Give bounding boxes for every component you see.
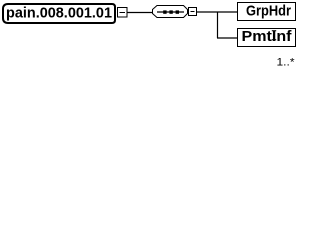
minus dash xyxy=(191,11,195,13)
wire root to sequence xyxy=(127,12,154,14)
svg-text:GrpHdr: GrpHdr xyxy=(246,3,291,20)
sequence dot 3 xyxy=(176,10,179,13)
serifs for capital I of PmtInf xyxy=(272,30,276,31)
expand box (minus) on sequence xyxy=(189,8,197,16)
wire vertical branch xyxy=(217,12,219,38)
sequence dot 2 xyxy=(169,10,172,13)
svg-text:1..*: 1..* xyxy=(277,57,296,69)
element box GrpHdr xyxy=(238,3,296,21)
svg-text:PmtInf: PmtInf xyxy=(242,28,293,45)
wire branch to PmtInf xyxy=(217,37,238,39)
element box PmtInf xyxy=(238,29,296,47)
svg-text:pain.008.001.01: pain.008.001.01 xyxy=(6,5,112,22)
sequence interior line xyxy=(157,11,184,13)
sequence dot 1 xyxy=(163,10,166,13)
expand box (minus) on root element xyxy=(118,8,128,18)
sequence compositor octagon xyxy=(153,6,188,18)
root element box pain.008.001.01 xyxy=(3,4,115,23)
wire sequence to GrpHdr xyxy=(197,11,238,13)
minus dash xyxy=(120,12,126,14)
